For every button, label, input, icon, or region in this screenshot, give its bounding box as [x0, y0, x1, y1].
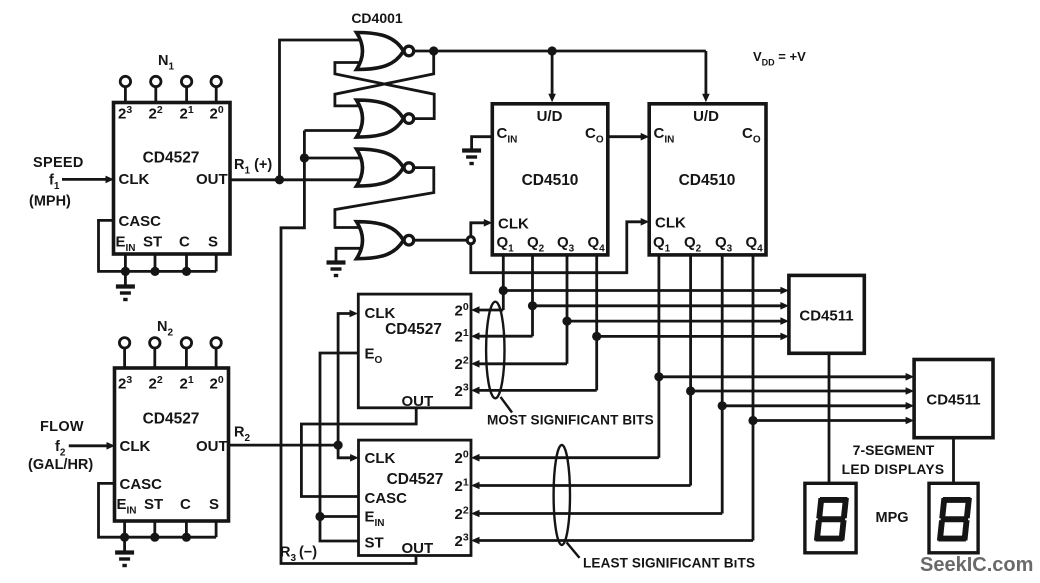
svg-text:CLK: CLK	[365, 305, 396, 322]
svg-text:CD4527: CD4527	[385, 321, 442, 338]
svg-text:MOST SIGNIFICANT BITS: MOST SIGNIFICANT BITS	[487, 413, 654, 428]
svg-text:CLK: CLK	[120, 438, 151, 455]
svg-text:U/D: U/D	[537, 108, 563, 125]
svg-text:FLOW: FLOW	[40, 419, 84, 435]
svg-text:OUT: OUT	[196, 438, 228, 455]
svg-text:CD4001: CD4001	[351, 10, 403, 26]
svg-text:7-SEGMENT: 7-SEGMENT	[853, 442, 935, 458]
svg-text:ST: ST	[143, 234, 162, 251]
svg-text:CD4510: CD4510	[679, 172, 736, 189]
svg-text:U/D: U/D	[693, 108, 719, 125]
svg-text:S: S	[209, 496, 219, 513]
svg-text:S: S	[208, 234, 218, 251]
svg-text:OUT: OUT	[402, 540, 434, 557]
svg-text:CASC: CASC	[365, 490, 408, 507]
svg-text:LEAST SIGNIFICANT BıTS: LEAST SIGNIFICANT BıTS	[583, 556, 755, 571]
svg-text:ST: ST	[144, 496, 163, 513]
svg-text:CLK: CLK	[655, 214, 686, 231]
svg-text:CLK: CLK	[365, 450, 396, 467]
svg-text:OUT: OUT	[402, 393, 434, 410]
svg-text:CASC: CASC	[120, 476, 163, 493]
svg-text:CD4527: CD4527	[143, 150, 200, 167]
svg-text:C: C	[179, 234, 190, 251]
svg-text:LED DISPLAYS: LED DISPLAYS	[842, 462, 945, 477]
svg-text:CD4511: CD4511	[926, 392, 980, 409]
svg-text:CLK: CLK	[119, 171, 150, 188]
svg-text:(GAL/HR): (GAL/HR)	[28, 457, 93, 473]
svg-text:(MPH): (MPH)	[29, 194, 71, 210]
svg-text:C: C	[180, 496, 191, 513]
svg-text:SPEED: SPEED	[33, 155, 84, 171]
svg-text:CD4510: CD4510	[522, 172, 579, 189]
svg-text:CLK: CLK	[498, 215, 529, 232]
svg-text:CD4527: CD4527	[143, 411, 200, 428]
svg-text:CD4527: CD4527	[387, 471, 444, 488]
svg-text:OUT: OUT	[196, 171, 228, 188]
svg-text:CD4511: CD4511	[799, 308, 853, 325]
svg-text:SeekIC.com: SeekIC.com	[920, 554, 1033, 576]
svg-text:ST: ST	[365, 535, 384, 552]
svg-text:MPG: MPG	[876, 510, 909, 526]
svg-text:CASC: CASC	[119, 213, 162, 230]
